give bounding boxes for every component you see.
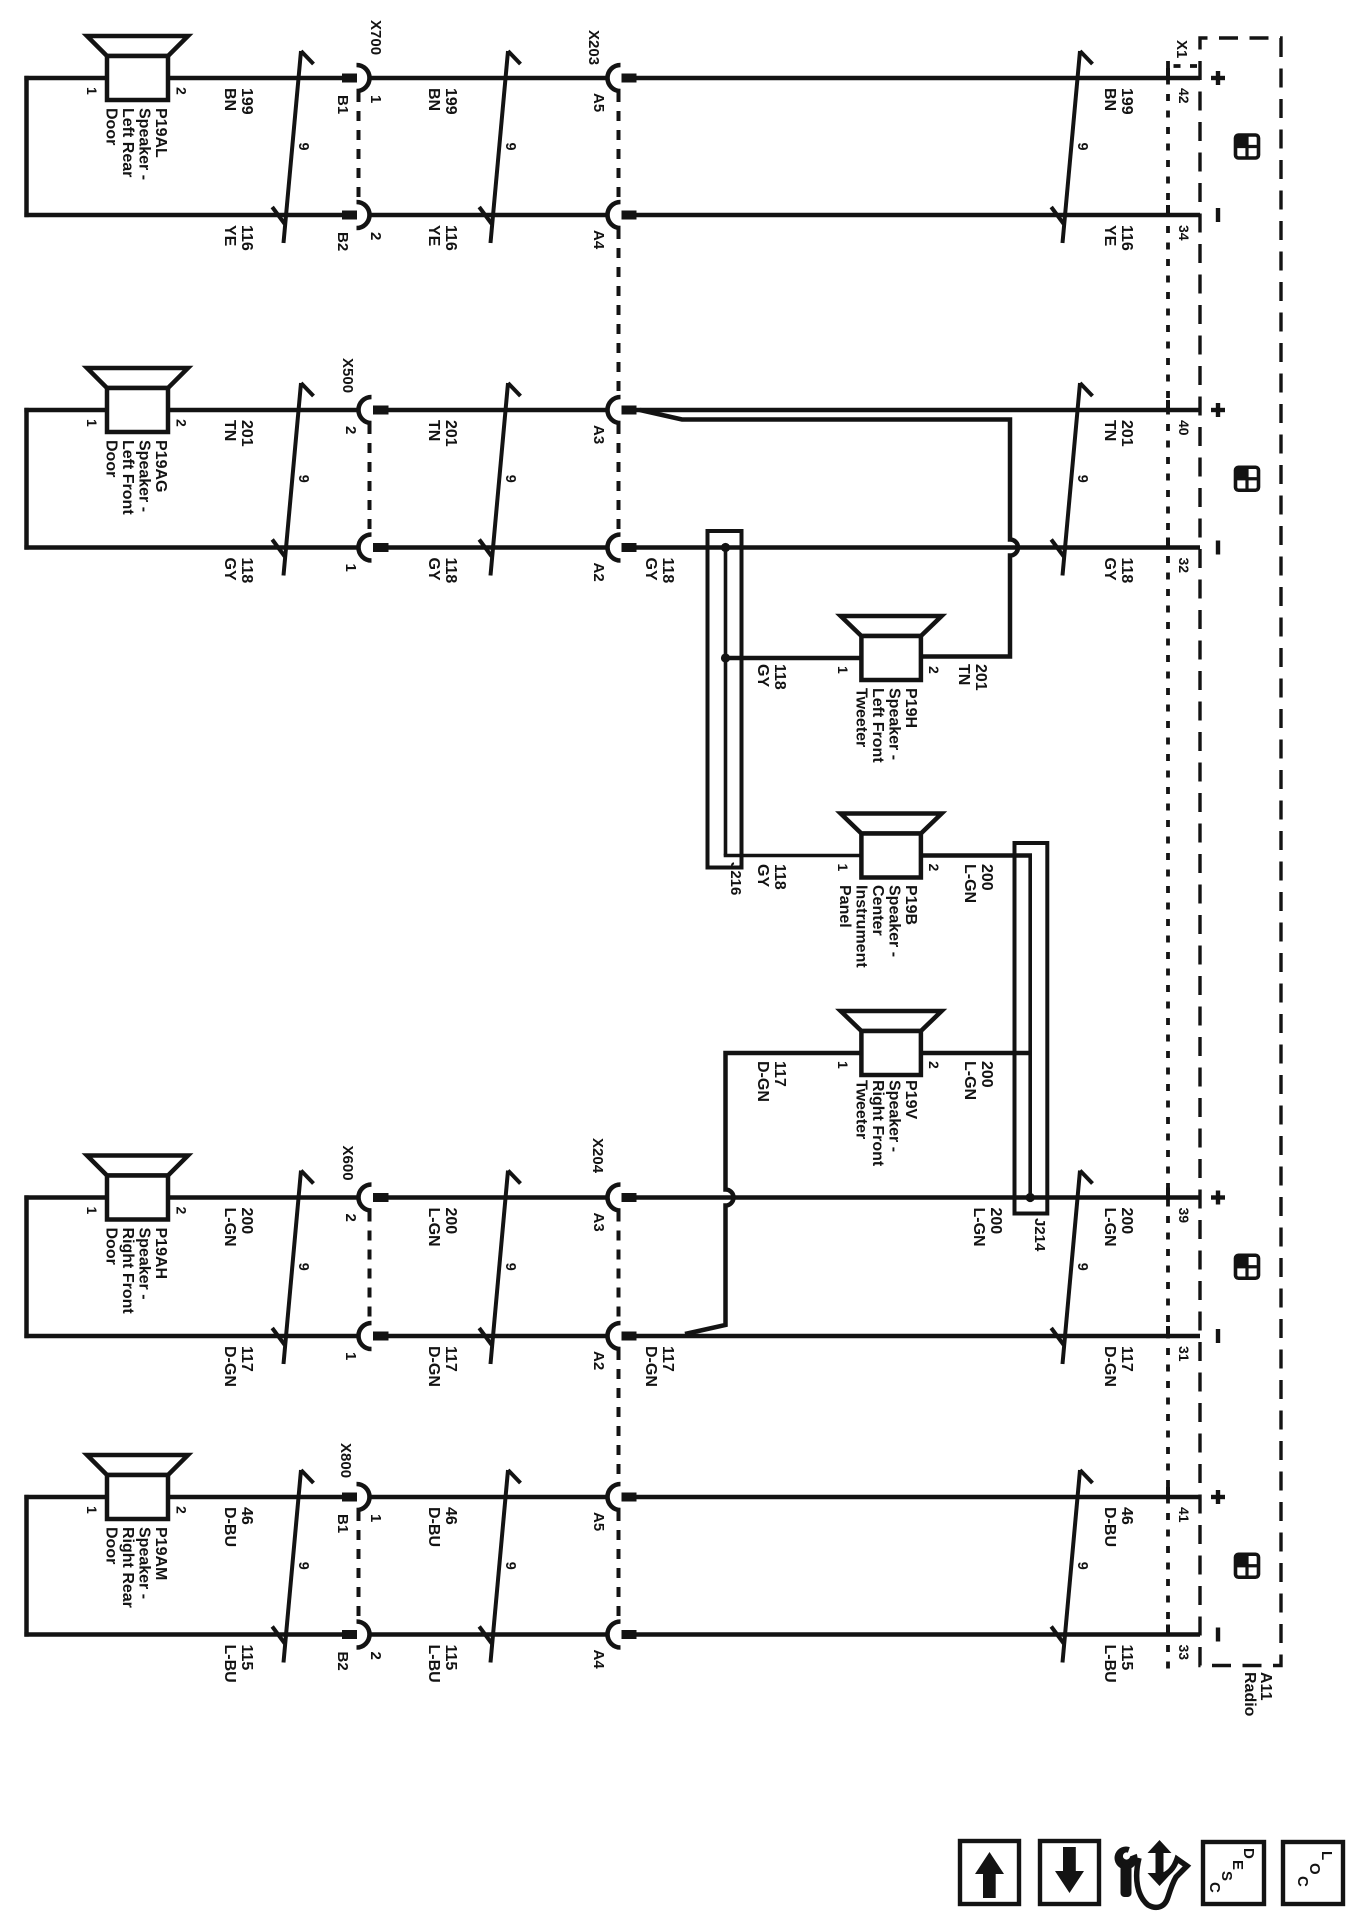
svg-text:YE: YE [425,225,442,247]
svg-text:9: 9 [1074,1562,1090,1570]
label 46 D-BU (speaker side) [221,1507,255,1547]
svg-text:200: 200 [442,1208,459,1235]
label 118 GY at P19H pin 1 [754,664,788,690]
svg-text:Instrument: Instrument [853,885,870,968]
svg-text:Door: Door [103,1228,120,1265]
svg-text:P19AL: P19AL [152,108,169,158]
pin label A2 [590,563,607,582]
svg-text:Tweeter: Tweeter [853,1080,870,1139]
radio pin 41 (+) tick [1166,1487,1170,1499]
svg-text:1: 1 [84,419,100,427]
svg-text:D-GN: D-GN [221,1346,238,1387]
junction dot J214 on wire 200 L-GN [1026,1193,1035,1202]
label 201 TN (speaker side) [221,420,255,447]
svg-text:A2: A2 [590,563,607,582]
svg-text:9: 9 [502,1263,518,1271]
svg-text:L-BU: L-BU [425,1645,442,1683]
label 118 GY (speaker side) [221,558,255,584]
svg-text:9: 9 [1074,1263,1090,1271]
toolbar down-arrow button [1040,1841,1099,1904]
speaker P19V name [853,1080,920,1167]
connector X600 pin at wire 1336 [359,1323,389,1349]
svg-text:9: 9 [295,1263,311,1271]
svg-text:201: 201 [972,664,989,691]
radio internal speaker symbol 3 [1236,1255,1259,1278]
svg-text:9: 9 [1074,142,1090,150]
junction dot J216 on wire 118 GY [721,543,730,552]
label 46 D-BU (mid harness) [425,1507,459,1547]
svg-text:1: 1 [367,1514,384,1522]
svg-text:2: 2 [342,426,359,434]
harness 9 slash (radio side) pair 41/33 [1051,1470,1092,1663]
svg-text:2: 2 [174,419,190,427]
svg-text:201: 201 [238,420,255,447]
label 118 GY (mid harness) [425,558,459,584]
label X1 [1173,40,1190,58]
speaker P19AG pin labels [84,419,190,427]
svg-text:116: 116 [1118,225,1135,251]
harness 9 slash (radio side) pair 40/32 [1051,383,1092,576]
P19B pin labels [835,864,942,872]
svg-text:116: 116 [442,225,459,251]
svg-text:39: 39 [1176,1208,1192,1224]
svg-text:32: 32 [1176,558,1192,574]
pin number 42 [1176,88,1192,104]
svg-text:2: 2 [174,87,190,95]
speaker P19AG symbol [87,368,188,388]
P19V pin labels [835,1061,942,1069]
svg-text:Speaker -: Speaker - [136,440,153,512]
svg-text:X600: X600 [339,1146,356,1181]
svg-text:1: 1 [835,1061,851,1069]
wire 118 GY from radio pin 32 to connector X500 [389,545,1201,550]
svg-text:A5: A5 [590,93,607,112]
wire 118 GY loop from X500 to speaker P19AG pin 1 [24,408,359,550]
svg-text:YE: YE [1101,225,1118,247]
svg-text:L-GN: L-GN [970,1208,987,1247]
svg-text:117: 117 [1118,1346,1135,1372]
connector X700 pin at wire 215 [342,202,370,228]
splice pack J214 [1015,843,1048,1214]
svg-text:GY: GY [1101,558,1118,581]
svg-text:J214: J214 [1031,1218,1048,1252]
svg-text:31: 31 [1176,1346,1192,1362]
svg-text:J216: J216 [727,862,744,895]
svg-text:Radio: Radio [1241,1672,1258,1717]
connector X700 pin at wire 78 [342,65,370,91]
pin label A2 [590,1351,607,1370]
svg-text:B2: B2 [334,232,351,251]
svg-text:L: L [1318,1851,1335,1860]
svg-text:BN: BN [1101,88,1118,111]
svg-text:117: 117 [771,1061,788,1087]
svg-text:1: 1 [835,666,851,674]
svg-text:E: E [1229,1860,1246,1870]
radio label A11 Radio [1241,1672,1274,1717]
svg-text:41: 41 [1176,1507,1192,1523]
svg-text:118: 118 [1118,558,1135,584]
connector label X500 [339,358,356,393]
svg-text:199: 199 [1118,88,1135,115]
svg-text:L-GN: L-GN [425,1208,442,1247]
P19H pin labels [835,666,942,674]
svg-text:Center: Center [869,885,886,936]
wire 115 L-BU loop from X800 to speaker P19AM pin 1 [24,1495,342,1637]
svg-text:1: 1 [342,1352,359,1360]
svg-text:P19AM: P19AM [152,1527,169,1580]
svg-text:P19V: P19V [902,1080,919,1119]
svg-text:A11: A11 [1257,1672,1274,1701]
svg-text:L-BU: L-BU [221,1645,238,1683]
svg-text:Speaker -: Speaker - [886,1080,903,1152]
svg-text:117: 117 [442,1346,459,1372]
svg-text:199: 199 [442,88,459,115]
harness 9 slash (speaker side) pair 41/33 [272,1470,313,1663]
pin number 41 [1176,1507,1192,1523]
label 116 YE (mid harness) [425,225,459,251]
svg-text:D-GN: D-GN [754,1061,771,1102]
connector X800 pin at wire 1497 [342,1484,370,1510]
minus sign pin 34 [1216,208,1220,222]
connector pin A3 (male+female) [607,397,636,423]
minus sign pin 32 [1216,541,1220,555]
label 115 L-BU (radio side) [1101,1645,1135,1683]
radio pin 32 (-) tick [1166,538,1170,550]
svg-text:1: 1 [84,1506,100,1514]
svg-text:Door: Door [103,1527,120,1564]
svg-text:199: 199 [238,88,255,115]
svg-text:A4: A4 [590,230,607,250]
svg-text:Speaker -: Speaker - [886,688,903,760]
svg-text:Door: Door [103,108,120,145]
svg-text:42: 42 [1176,88,1192,104]
radio internal speaker symbol 1 [1236,135,1259,158]
speaker P19B symbol [841,814,942,834]
svg-text:1: 1 [342,564,359,572]
toolbar up-arrow button [960,1841,1019,1904]
svg-text:46: 46 [442,1507,459,1525]
svg-text:118: 118 [442,558,459,584]
svg-text:200: 200 [978,864,995,891]
speaker P19B name [836,885,919,968]
wire 200 L-GN from P19V pin 2 to splice J214 [921,1051,1030,1056]
pin number 40 [1176,420,1192,436]
svg-text:200: 200 [987,1208,1004,1235]
harness 9 slash (mid) pair 40/32 [479,383,520,576]
connector X600 dashed line [368,1212,372,1323]
svg-text:9: 9 [295,475,311,483]
svg-text:TN: TN [221,420,238,441]
connector pin A5 (male+female) [607,65,636,91]
connector X700 dashed line [357,92,361,201]
pin label 2 / B2 [334,232,384,251]
svg-text:D-GN: D-GN [642,1346,659,1387]
splice pack J216 [708,531,742,868]
speaker P19H name [853,688,920,763]
label 200 L-GN (speaker side) [221,1208,255,1247]
svg-text:115: 115 [1118,1645,1135,1671]
label 200 L-GN at P19B pin 2 [961,864,995,903]
svg-text:YE: YE [221,225,238,247]
radio pin 33 (-) tick [1166,1625,1170,1637]
wire 46 D-BU from X800 to speaker P19AM pin 2 [168,1495,342,1500]
speaker P19AM pin labels [84,1506,190,1514]
svg-text:P19AH: P19AH [152,1228,169,1280]
svg-text:D-BU: D-BU [221,1507,238,1547]
wire 199 BN from radio pin 42 to connector X700 [369,76,1200,81]
svg-text:X700: X700 [367,20,384,55]
svg-text:P19B: P19B [902,885,919,925]
pin number 32 [1176,558,1192,574]
pin label A3 [590,425,607,444]
svg-text:O: O [1306,1863,1323,1875]
pin number 31 [1176,1346,1192,1362]
label 117 D-GN at P19V pin 1 [754,1061,788,1102]
harness 9 slash (mid) pair 42/34 [479,51,520,243]
svg-text:Left Front: Left Front [869,688,886,763]
pin number 33 [1176,1645,1192,1661]
plus sign pin 40 [1211,403,1225,417]
harness 9 slash (radio side) pair 42/34 [1051,51,1092,243]
harness 9 slash (speaker side) pair 39/31 [272,1171,313,1365]
connector pin A3 (male+female) [607,1185,636,1211]
speaker P19AM name [103,1527,170,1608]
svg-text:118: 118 [771,864,788,890]
label 200 L-GN (mid harness) [425,1208,459,1247]
svg-text:P19AG: P19AG [152,440,169,492]
svg-text:117: 117 [238,1346,255,1372]
radio pin 34 (-) tick [1166,205,1170,217]
svg-text:117: 117 [659,1346,676,1372]
svg-text:Speaker -: Speaker - [886,885,903,957]
svg-text:1: 1 [84,87,100,95]
connector pin A2 (male+female) [607,1323,636,1349]
speaker P19AL name [103,108,170,180]
junction dot J216 at P19H branch [721,653,730,662]
wire 117 D-GN loop from X600 to speaker P19AH pin 1 [24,1195,359,1338]
svg-text:118: 118 [659,558,676,584]
label 117 D-GN below connector A2 (right front) [642,1346,676,1387]
wire 201 TN branch from connector A3 to tweeter P19H pin 2 [640,410,1018,657]
svg-text:2: 2 [926,864,942,872]
harness 9 slash (speaker side) pair 40/32 [272,383,313,576]
svg-text:X800: X800 [337,1443,354,1478]
svg-text:GY: GY [221,558,238,581]
svg-text:GY: GY [425,558,442,581]
svg-text:A3: A3 [590,1213,607,1232]
radio pin 40 (+) tick [1166,400,1170,412]
svg-text:L-GN: L-GN [961,864,978,903]
wire 200 L-GN from radio pin 39 to connector X600 [389,1195,1201,1200]
label 117 D-GN (mid harness) [425,1346,459,1387]
svg-text:L-GN: L-GN [1101,1208,1118,1247]
svg-text:GY: GY [754,864,771,887]
svg-text:2: 2 [926,1061,942,1069]
svg-text:Right Front: Right Front [869,1080,886,1167]
svg-text:TN: TN [425,420,442,441]
label 199 BN (speaker side) [221,88,255,115]
svg-text:TN: TN [955,664,972,685]
connector X203 dashed line [617,92,621,534]
label 117 D-GN (radio side) [1101,1346,1135,1387]
svg-text:D-BU: D-BU [425,1507,442,1547]
speaker P19AH name [103,1228,170,1315]
connector X204 dashed line [617,1212,621,1621]
wire 116 YE from radio pin 34 to connector X700 [369,213,1200,218]
label 200 L-GN at P19V pin 2 [961,1061,995,1100]
radio pin 42 (+) tick [1166,68,1170,80]
svg-text:D-GN: D-GN [425,1346,442,1387]
connector X600 pin at wire 1197.5 [359,1185,389,1211]
speaker P19AM symbol [87,1455,188,1475]
svg-text:2: 2 [926,666,942,674]
svg-text:B2: B2 [334,1652,351,1671]
pin label A4 [590,1650,607,1670]
svg-text:BN: BN [425,88,442,111]
wire 118 GY from P19H pin 1 to splice J216 [726,656,862,661]
pin label A5 [590,1512,607,1531]
svg-text:A4: A4 [590,1650,607,1670]
wire 115 L-BU from radio pin 33 to connector X800 [369,1632,1200,1637]
harness 9 slash (mid) pair 39/31 [479,1171,520,1365]
svg-text:TN: TN [1101,420,1118,441]
label 117 D-GN (speaker side) [221,1346,255,1387]
svg-text:9: 9 [502,142,518,150]
svg-text:D-BU: D-BU [1101,1507,1118,1547]
speaker P19V symbol [841,1011,942,1031]
svg-text:2: 2 [174,1207,190,1215]
wire 117 D-GN from radio pin 31 to connector X600 [389,1334,1201,1339]
svg-text:2: 2 [342,1214,359,1222]
label 116 YE (speaker side) [221,225,255,251]
svg-text:200: 200 [238,1208,255,1235]
svg-text:9: 9 [1074,475,1090,483]
pin label A4 [590,230,607,250]
svg-text:Speaker -: Speaker - [136,1228,153,1300]
svg-text:Right Front: Right Front [119,1228,136,1315]
harness 9 slash (radio side) pair 39/31 [1051,1171,1092,1365]
wire 199 BN from X700 to speaker P19AL pin 2 [168,76,342,81]
label 115 L-BU (mid harness) [425,1645,459,1683]
pin label A3 [590,1213,607,1232]
wire 117 D-GN branch from P19V pin 1 to wire of pin 31 [685,1053,861,1334]
svg-text:115: 115 [442,1645,459,1671]
svg-text:S: S [1218,1871,1235,1881]
svg-text:L-GN: L-GN [221,1208,238,1247]
svg-text:Speaker -: Speaker - [136,1527,153,1599]
wire 201 TN from radio pin 40 to connector X500 [389,408,1201,413]
pin label A5 [590,93,607,112]
wire 200 L-GN from P19B pin 2 to splice J214 [921,853,1032,858]
pin label 2 [342,1214,359,1222]
svg-text:200: 200 [978,1061,995,1088]
svg-text:D: D [1240,1848,1257,1859]
svg-text:Speaker -: Speaker - [136,108,153,180]
pin label 2 [342,426,359,434]
svg-text:Panel: Panel [836,885,853,928]
svg-text:2: 2 [174,1506,190,1514]
radio pin 31 (-) tick [1166,1326,1170,1338]
speaker P19AG name [103,440,170,515]
svg-text:1: 1 [835,864,851,872]
J216 internal bus wire [724,548,862,856]
label 118 GY (radio side) [1101,558,1135,584]
svg-text:1: 1 [84,1207,100,1215]
svg-text:46: 46 [238,1507,255,1525]
label 201 TN (radio side) [1101,420,1135,447]
label J216 [727,862,744,895]
speaker P19AH symbol [87,1156,188,1176]
wire 200 L-GN from X600 to speaker P19AH pin 2 [168,1195,359,1200]
svg-text:9: 9 [502,1562,518,1570]
plus sign pin 39 [1211,1191,1225,1205]
connector X500 pin at wire 547.5 [359,535,389,561]
svg-text:GY: GY [642,558,659,581]
harness 9 slash (speaker side) pair 42/34 [272,51,313,243]
svg-text:33: 33 [1176,1645,1192,1661]
connector label X204 [589,1138,606,1174]
svg-text:L-GN: L-GN [961,1061,978,1100]
label 200 L-GN below J214 on wire 39 [970,1208,1004,1247]
speaker P19AH pin labels [84,1207,190,1215]
pin label 1 [342,1352,359,1360]
svg-text:X203: X203 [585,30,602,65]
label 116 YE (radio side) [1101,225,1135,251]
svg-text:Left Front: Left Front [119,440,136,515]
pin number 34 [1176,225,1192,241]
svg-text:A2: A2 [590,1351,607,1370]
svg-text:Right Rear: Right Rear [119,1527,136,1608]
svg-text:B1: B1 [334,95,351,114]
svg-text:40: 40 [1176,420,1192,436]
svg-text:115: 115 [238,1645,255,1671]
svg-text:B1: B1 [334,1514,351,1533]
speaker P19H symbol [841,616,942,636]
svg-text:BN: BN [221,88,238,111]
svg-text:X500: X500 [339,358,356,393]
wire 116 YE loop from X700 to speaker P19AL pin 1 [24,76,342,217]
svg-text:A3: A3 [590,425,607,444]
label 201 TN (mid harness) [425,420,459,447]
harness 9 slash (mid) pair 41/33 [479,1470,520,1663]
connector X800 pin at wire 1634.5 [342,1622,370,1648]
svg-text:P19H: P19H [902,688,919,728]
svg-text:9: 9 [502,475,518,483]
connector label X600 [339,1146,356,1181]
plus sign pin 42 [1211,71,1225,85]
connector pin A2 (male+female) [607,535,636,561]
toolbar wrench/branch icon [1115,1840,1188,1907]
svg-text:2: 2 [367,232,384,240]
connector label X203 [585,30,602,65]
label 201 TN at P19H pin 2 [955,664,989,691]
svg-text:Tweeter: Tweeter [853,688,870,747]
pin label 1 [342,564,359,572]
svg-text:118: 118 [238,558,255,584]
svg-text:X204: X204 [589,1138,606,1174]
label 115 L-BU (speaker side) [221,1645,255,1683]
wire 46 D-BU from radio pin 41 to connector X800 [369,1495,1200,1500]
label 199 BN (radio side) [1101,88,1135,115]
connector pin A4 (male+female) [607,202,636,228]
radio pin 39 (+) tick [1166,1188,1170,1200]
svg-text:L-BU: L-BU [1101,1645,1118,1683]
wire 201 TN from X500 to speaker P19AG pin 2 [168,408,359,413]
svg-text:D-GN: D-GN [1101,1346,1118,1387]
radio internal speaker symbol 2 [1236,467,1259,490]
radio A11 dashed box [1200,38,1281,1666]
svg-text:X1: X1 [1173,40,1190,58]
